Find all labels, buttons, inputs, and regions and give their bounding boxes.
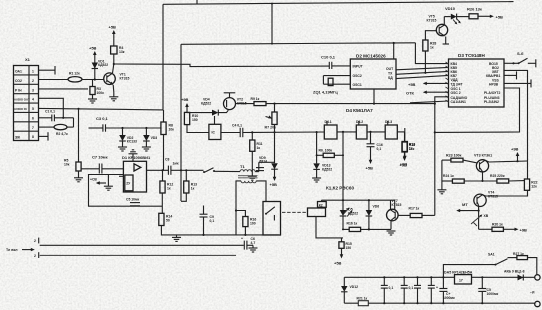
ground (R11): [248, 176, 257, 180]
svg-text:ОА1: ОА1: [15, 70, 22, 74]
svg-text:+9В: +9В: [400, 162, 408, 167]
svg-text:S-б: S-б: [517, 51, 524, 56]
svg-text:R9 1к: R9 1к: [251, 97, 260, 101]
LED VD5 (with arrows): [340, 200, 359, 229]
svg-text:R16 1к: R16 1к: [347, 222, 358, 226]
svg-text:−И: −И: [530, 291, 535, 295]
svg-text:1000мк: 1000мк: [443, 296, 455, 300]
svg-text:D4.1: D4.1: [325, 120, 332, 124]
svg-text:+5В: +5В: [408, 82, 416, 87]
svg-text:+5В: +5В: [89, 46, 97, 51]
pin1 stub wire: [39, 66, 56, 75]
diode VD12 (left leg): [341, 277, 358, 303]
ground (wire y235): [172, 235, 181, 242]
svg-text:+5В: +5В: [366, 166, 374, 171]
pin4 wire: [39, 98, 64, 118]
svg-text:ХВ: ХВ: [484, 214, 489, 218]
svg-text:1мк: 1мк: [173, 162, 179, 166]
resistor R25: [490, 174, 524, 183]
LED VD11 + battery terminals: [504, 270, 540, 307]
switch SA1 + R27 bypass: [443, 252, 536, 277]
wire D2 out3 to D3: [396, 75, 449, 78]
svg-text:4,7: 4,7: [251, 241, 256, 245]
svg-text:3: 3: [32, 88, 34, 92]
svg-text:ОТК: ОТК: [406, 91, 415, 96]
svg-text:R26 13к: R26 13к: [467, 7, 482, 12]
svg-text:R1 12к: R1 12к: [69, 72, 80, 76]
svg-text:SД: SД: [388, 76, 393, 80]
resistor R26: [467, 7, 503, 20]
capacitor C9: [200, 206, 215, 236]
Tl input label: [6, 248, 35, 252]
svg-text:С4 0,1: С4 0,1: [232, 124, 242, 128]
resistor R23: [442, 153, 477, 163]
resistor R6 (gate feedback): [317, 132, 344, 200]
+9V arrow to R10: [181, 97, 189, 112]
resistor R12: [160, 170, 173, 213]
OTK arrow into D3: [406, 91, 449, 96]
ground (R24 left): [437, 181, 446, 194]
svg-text:ОUТ: ОUТ: [386, 67, 394, 71]
svg-text:R2 4,7к: R2 4,7к: [56, 132, 68, 136]
wire D2 out1 to D3: [396, 67, 449, 69]
svg-text:ІС: ІС: [212, 131, 216, 135]
svg-text:Д814: Д814: [259, 159, 267, 163]
resistor R22: [524, 179, 537, 190]
gate D4.3: [385, 120, 405, 139]
svg-text:50: 50: [166, 219, 170, 223]
wire D3 right detour to y132: [435, 88, 520, 132]
transistor VT1: [104, 64, 130, 92]
svg-text:17: 17: [459, 279, 463, 283]
capacitor C8: [147, 158, 204, 175]
resistor R20: [479, 223, 527, 233]
node rail end: [434, 103, 436, 105]
+9V arrow tap: [511, 147, 519, 162]
svg-text:8: 8: [32, 135, 34, 139]
svg-text:+5В: +5В: [334, 261, 342, 266]
svg-text:+5В: +5В: [496, 15, 504, 20]
svg-text:+: +: [436, 286, 438, 290]
resistor R21 (on bottom rail): [357, 296, 369, 305]
svg-text:Т1: Т1: [240, 164, 245, 169]
resistor R28: [423, 40, 437, 74]
svg-text:РLА/ОУТ2: РLА/ОУТ2: [484, 91, 500, 95]
svg-text:АКБ 9 ВЦ1-8: АКБ 9 ВЦ1-8: [504, 270, 525, 274]
capacitor C10: [321, 55, 350, 70]
zener VD2: [118, 128, 137, 151]
svg-text:VТ3 КТ361: VТ3 КТ361: [474, 154, 492, 158]
wire vertical x163: [162, 4, 164, 110]
ground (inside shield): [104, 175, 113, 191]
svg-text:150: 150: [192, 118, 198, 122]
terminal bar (pin HP3B): [504, 79, 531, 87]
resistor R3: [90, 80, 104, 96]
svg-text:Тл вкл: Тл вкл: [6, 248, 18, 252]
D2 VDD wire to rail: [393, 42, 395, 59]
svg-text:КД522: КД522: [322, 168, 332, 172]
wire D3 CAD to VT7 column: [435, 97, 449, 216]
svg-text:7: 7: [32, 126, 34, 130]
wire top rail: [163, 2, 514, 5]
svg-text:ZQ1 4,19МГц: ZQ1 4,19МГц: [313, 90, 338, 95]
capacitor C3: [89, 116, 162, 132]
svg-text:D2 МС145026: D2 МС145026: [356, 54, 386, 59]
svg-text:+9В: +9В: [511, 147, 519, 152]
svg-text:R25 220к: R25 220к: [490, 174, 505, 178]
wire Tl line 1: [40, 244, 244, 246]
capacitor C12 (stub): [256, 168, 264, 171]
resistor R14: [159, 213, 279, 235]
transformer T1: [238, 162, 259, 182]
diode VD6: [366, 200, 380, 229]
pin8 stub: [39, 132, 49, 140]
svg-text:1к: 1к: [409, 147, 413, 151]
svg-text:0,1: 0,1: [389, 286, 394, 290]
svg-text:R6. 100к: R6. 100к: [319, 149, 333, 153]
relay K2 coil: [308, 200, 344, 238]
D2 VSS wire to rail: [373, 89, 375, 104]
svg-text:R20 1к: R20 1к: [492, 223, 503, 227]
capacitor C13: [414, 277, 421, 303]
svg-text:D1 КР1006ВИ1: D1 КР1006ВИ1: [122, 155, 151, 160]
capacitor C14: [428, 277, 435, 303]
capacitor C5 1000mk: [478, 277, 498, 303]
svg-text:D4 К561ЛА7: D4 К561ЛА7: [346, 108, 373, 113]
transistor VT4: [474, 191, 498, 212]
svg-text:1к: 1к: [257, 146, 261, 150]
svg-text:12к: 12к: [531, 185, 537, 189]
resistor R18 (after gate 3): [400, 132, 416, 168]
svg-text:AUDIO IN: AUDIO IN: [14, 107, 27, 111]
svg-text:+9В: +9В: [181, 97, 189, 102]
svg-text:С7 10мк: С7 10мк: [92, 155, 108, 160]
wire PSU top rail: [344, 276, 535, 278]
resistor R4: [111, 46, 125, 65]
MT output arrow: [456, 202, 478, 212]
svg-text:ОSС2: ОSС2: [353, 74, 362, 78]
svg-text:100: 100: [250, 222, 256, 226]
svg-text:SА1: SА1: [488, 253, 495, 257]
svg-text:К1,К2 РЭС60: К1,К2 РЭС60: [326, 186, 354, 191]
resistor R16: [236, 211, 256, 236]
svg-text:ОSС1: ОSС1: [353, 83, 362, 87]
svg-text:+5В: +5В: [109, 25, 117, 30]
wire VT1 collector to D2 input: [114, 64, 329, 67]
transistor VT7: [387, 199, 402, 229]
svg-text:К2: К2: [319, 203, 323, 207]
switch SA (after D1): [203, 168, 240, 173]
svg-text:D3 ТС9148Н: D3 ТС9148Н: [458, 53, 485, 58]
dash-dot mechanical link: [282, 211, 307, 213]
svg-text:INРUТ: INРUТ: [353, 65, 364, 69]
svg-text:10к: 10к: [64, 163, 70, 167]
svg-text:VD10: VD10: [445, 6, 456, 11]
svg-text:1к: 1к: [191, 187, 195, 191]
svg-text:D4.3: D4.3: [385, 120, 392, 124]
transistor VT5: [425, 15, 449, 45]
svg-text:НР3В: НР3В: [489, 83, 499, 87]
svg-text:+9В: +9В: [520, 228, 528, 233]
resistor R24: [442, 160, 497, 183]
trimmer R7: [265, 104, 278, 164]
svg-text:1к: 1к: [167, 187, 171, 191]
svg-text:ОSС 2: ОSС 2: [451, 91, 461, 95]
capacitor C11: [381, 277, 394, 303]
terminal bar (pin KBA): [504, 71, 517, 79]
wire D3 CA1 merging left: [410, 101, 449, 103]
IC stabilizer box: [209, 116, 221, 140]
switch SB1: [504, 51, 536, 67]
transistor VT3: [474, 154, 492, 182]
capacitor C4: [221, 124, 324, 138]
tick top: [196, 0, 198, 4]
wire PSU bottom rail: [344, 302, 535, 304]
svg-text:1000мк: 1000мк: [487, 292, 499, 296]
svg-text:С1 0,1: С1 0,1: [45, 110, 55, 114]
+5V arrow into D3: [408, 82, 449, 87]
wire VT3 collector to +9V node: [489, 160, 528, 162]
svg-text:VD12: VD12: [350, 285, 359, 289]
resistor R8: [161, 110, 174, 170]
svg-text:КТ815: КТ815: [392, 203, 402, 207]
resistor R9: [251, 97, 267, 106]
wire mid rail y44: [181, 43, 415, 45]
capacitor C1: [39, 110, 74, 122]
gate D4.2: [356, 120, 385, 139]
wire mid rail y103.6: [266, 103, 435, 105]
svg-text:1к: 1к: [430, 46, 434, 50]
relay contact K1.1 box: [263, 202, 281, 236]
svg-text:МТ: МТ: [462, 202, 468, 207]
diode VD13: [313, 154, 332, 178]
svg-text:+5В: +5В: [270, 182, 278, 187]
resistor R5: [64, 109, 83, 182]
svg-text:С5 10мк: С5 10мк: [126, 198, 140, 202]
ground (VT7): [387, 231, 396, 235]
svg-text:6: 6: [32, 116, 34, 120]
shield box (mic input): [89, 175, 163, 207]
svg-text:+СВ: +СВ: [90, 178, 97, 182]
svg-text:R17 1к: R17 1к: [409, 207, 420, 211]
input pin marks: [34, 238, 39, 258]
capacitor C5 (on shield bottom): [126, 198, 140, 206]
svg-text:10к: 10к: [169, 128, 175, 132]
node T1 bottom: [235, 209, 237, 211]
T1 secondary left lead: [236, 181, 241, 235]
svg-text:150: 150: [346, 246, 352, 250]
op-amp D1: [119, 155, 151, 192]
svg-text:ТД 3/4Т: ТД 3/4Т: [451, 82, 464, 86]
svg-text:КТ315: КТ315: [427, 19, 437, 23]
svg-text:AUDIO OUT: AUDIO OUT: [14, 98, 30, 102]
connector X1: [14, 57, 39, 141]
T1 secondary right to contact box: [256, 181, 266, 202]
wire T1 primary return: [259, 161, 275, 163]
ground (VT1 emitter): [109, 92, 118, 101]
svg-text:VD3: VD3: [151, 136, 158, 140]
resistor R11: [250, 132, 263, 176]
regulator DA5: [444, 271, 473, 284]
capacitor C12: [401, 277, 414, 303]
+5V arrow (VD7): [270, 177, 278, 187]
svg-text:Р IН: Р IН: [15, 88, 22, 92]
IC D3: [449, 53, 505, 107]
resistor R19: [400, 128, 416, 167]
svg-text:КС133: КС133: [127, 140, 137, 144]
node y132: [434, 131, 436, 133]
resistor R17: [398, 207, 435, 218]
wire vertical x272: [271, 3, 273, 43]
svg-text:2: 2: [32, 79, 34, 83]
diode VD1: [92, 60, 109, 81]
svg-text:100к: 100к: [97, 91, 105, 95]
capacitor C7: [81, 155, 123, 174]
diode VD4: [187, 98, 228, 116]
ground (R3): [88, 95, 97, 104]
svg-text:КТ315: КТ315: [488, 195, 498, 199]
zener VD3: [142, 128, 157, 151]
resistor R15: [334, 238, 352, 266]
gate D4.1: [324, 120, 356, 139]
svg-text:КД522: КД522: [201, 101, 211, 105]
wire vertical x181: [180, 44, 182, 201]
svg-text:КД522: КД522: [98, 63, 108, 67]
ground (C6): [249, 248, 258, 252]
+5V arrow (VD1 branch): [89, 46, 97, 61]
svg-text:С10 0,1: С10 0,1: [321, 55, 336, 60]
svg-text:5: 5: [32, 107, 34, 111]
ground (VD13): [312, 178, 321, 182]
svg-text:4: 4: [32, 98, 34, 102]
svg-text:С8: С8: [165, 158, 169, 162]
wire rail to D3 pin1: [415, 43, 448, 64]
resistor R13: [181, 170, 197, 201]
resistor R16a: [342, 222, 391, 232]
crystal ZQ1: [313, 76, 350, 95]
wire R22 to VT4 collector: [486, 190, 528, 196]
svg-text:2: 2: [34, 254, 36, 258]
svg-text:0,1: 0,1: [210, 219, 215, 223]
+5V arrow (R4 branch): [109, 25, 117, 47]
svg-text:СО2: СО2: [15, 79, 22, 83]
resistor R10: [184, 112, 209, 132]
IC D2: [350, 54, 396, 90]
wire relay top rail: [322, 199, 395, 209]
ground (D1 top pin): [129, 150, 138, 162]
LED VD10: [444, 6, 469, 24]
svg-text:2: 2: [34, 239, 36, 243]
resistor R1: [39, 72, 105, 83]
svg-text:СА1/АIN1: СА1/АIN1: [451, 100, 466, 104]
svg-text:РL2/АIN2: РL2/АIN2: [484, 100, 499, 104]
svg-text:X1: X1: [25, 57, 31, 62]
svg-text:R24 1к: R24 1к: [443, 174, 454, 178]
node pin5 rail: [39, 108, 164, 110]
electret mic BM: [471, 211, 489, 230]
svg-text:КТ315: КТ315: [120, 77, 130, 81]
svg-text:D4.2: D4.2: [356, 120, 363, 124]
svg-text:R23 100к: R23 100к: [446, 153, 462, 157]
diode VD7: [259, 156, 278, 180]
svg-text:R21 1к: R21 1к: [357, 296, 368, 300]
capacitor C4+ 1000mk: [436, 277, 455, 303]
svg-text:1: 1: [32, 70, 34, 74]
wire D3 BO2 right detour down: [504, 70, 528, 179]
svg-text:VD6: VD6: [373, 205, 380, 209]
wire Tl line 2: [40, 254, 236, 256]
capacitor C16: [366, 132, 383, 171]
svg-text:13к: 13к: [119, 50, 125, 54]
svg-text:+: +: [241, 237, 243, 241]
capacitor C6: [241, 237, 255, 250]
resistor R2: [39, 118, 74, 136]
svg-text:С3 0,1: С3 0,1: [96, 116, 109, 121]
svg-text:0,1: 0,1: [377, 147, 382, 151]
D3 left pin ticks: [446, 62, 449, 102]
pin3 wire: [39, 88, 89, 90]
svg-text:0,1: 0,1: [409, 286, 414, 290]
transistor VT2: [224, 93, 255, 110]
wire D2 out2 to D3: [396, 71, 449, 74]
